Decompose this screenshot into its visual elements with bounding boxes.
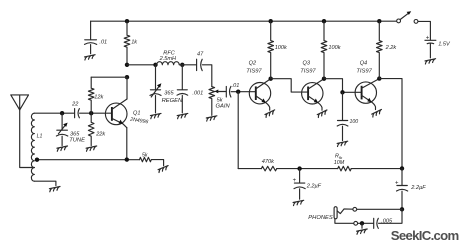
svg-text:.01: .01	[232, 83, 240, 89]
svg-text:470k: 470k	[262, 159, 275, 165]
capacitor 365 REGEN	[150, 86, 161, 113]
wire sleeve to cap	[358, 222, 374, 224]
resistor 12k	[88, 77, 94, 113]
svg-text:REGEN: REGEN	[162, 98, 183, 104]
resistor 2.2k	[376, 21, 382, 78]
transistor Q2 TIS97	[249, 83, 270, 104]
terminal open circle tip	[353, 207, 357, 211]
wire coil bottom to ground	[34, 181, 56, 185]
capacitor .001	[177, 90, 188, 113]
wire Q4 output	[379, 79, 402, 169]
svg-text:47: 47	[197, 51, 204, 57]
resistor 5k emitter	[140, 157, 164, 165]
svg-text:2.5mH: 2.5mH	[159, 56, 177, 62]
capacitor 365 REGEN lead	[155, 65, 157, 90]
capacitor C .01 top-left	[85, 40, 97, 54]
wire RFC line	[127, 64, 157, 66]
wire to Q2 base	[231, 91, 256, 93]
wire 47 cap to gain pot	[202, 65, 211, 87]
capacitor C .01 top-left lead	[90, 21, 92, 39]
svg-text:.01: .01	[99, 39, 107, 45]
wire antenna down lead	[20, 110, 35, 168]
svg-text:Rfb: Rfb	[335, 154, 343, 160]
ground below 5k	[158, 166, 169, 173]
node rail at 1k	[125, 19, 129, 23]
svg-text:Q2: Q2	[249, 60, 257, 66]
wire RFB to output node	[351, 168, 402, 170]
transistor Q1 2N4996	[105, 103, 127, 125]
wire 22 cap to Q1 base	[80, 112, 112, 114]
node Q2 collector	[269, 77, 273, 81]
resistor R 1k	[124, 21, 130, 65]
svg-text:GAIN: GAIN	[216, 103, 231, 109]
node .001 tap	[180, 63, 184, 67]
svg-text:+: +	[293, 178, 297, 184]
svg-text:5k: 5k	[142, 152, 148, 158]
wire jack sleeve line	[335, 219, 354, 224]
ground below TUNE	[57, 146, 68, 151]
svg-text:1.5V: 1.5V	[438, 41, 451, 47]
svg-text:Q4: Q4	[360, 60, 367, 66]
svg-text:+: +	[395, 180, 399, 186]
capacitor 47	[197, 59, 203, 70]
node sleeve ground	[360, 221, 364, 225]
svg-text:2.2µF: 2.2µF	[410, 185, 426, 191]
capacitor 100 base bypass	[337, 92, 348, 140]
wire Q1 collector vertical	[126, 77, 128, 99]
wire feedback vertical	[237, 92, 239, 169]
svg-text:TUNE: TUNE	[69, 137, 85, 143]
svg-text:PHONES: PHONES	[308, 215, 333, 221]
svg-text:Q3: Q3	[303, 60, 311, 66]
jack switch lever	[337, 209, 353, 214]
ground coil bottom	[49, 187, 60, 192]
wire top supply rail	[91, 20, 397, 22]
capacitor .005	[374, 218, 379, 228]
capacitor 2.2uF second	[397, 168, 408, 209]
resistor 100k second	[321, 21, 327, 78]
resistor 100k first	[268, 21, 274, 78]
node RFC line left	[125, 63, 129, 67]
node rail 100k2	[322, 19, 326, 23]
transistor Q4 TIS97	[355, 82, 376, 103]
phone jack body	[334, 207, 337, 219]
potentiometer 5k GAIN	[209, 87, 215, 116]
wire Q3 to Q4	[324, 79, 361, 93]
capacitor 2.2uF first	[294, 169, 305, 200]
svg-text:2.2µF: 2.2µF	[306, 184, 322, 190]
resistor RFB 10M	[338, 166, 351, 171]
svg-text:TIS97: TIS97	[356, 68, 372, 74]
wire .005 to output	[379, 209, 403, 223]
svg-text:100: 100	[350, 119, 359, 125]
ground Q3 emitter	[317, 110, 329, 118]
pot wiper arrow	[214, 90, 218, 94]
wire to RFB	[277, 168, 338, 170]
ground below 22k	[86, 146, 97, 151]
svg-text:.001: .001	[192, 91, 203, 97]
node 12k/22k junction	[89, 111, 93, 115]
ground Q4 emitter	[371, 109, 383, 117]
wire coil tap to emitter resistor	[37, 159, 140, 161]
node 2.2uF junction	[297, 166, 301, 170]
node output junction	[400, 166, 404, 170]
resistor 22k	[88, 113, 94, 145]
svg-text:Q1: Q1	[133, 110, 140, 116]
ground Q2 emitter	[264, 110, 276, 118]
svg-text:TIS97: TIS97	[300, 68, 316, 74]
capacitor .001 lead	[181, 65, 183, 90]
svg-text:10M: 10M	[334, 160, 345, 166]
wire switch to battery corner	[418, 21, 431, 40]
ground below 2.2uF first	[293, 200, 304, 205]
capacitor .01 gain coupling	[226, 86, 231, 97]
svg-text:12k: 12k	[94, 94, 104, 100]
ground below pot	[206, 116, 217, 121]
ground below 100	[337, 141, 348, 146]
antenna	[11, 95, 29, 110]
capacitor 365 TUNE lead	[61, 113, 63, 130]
node emitter junction	[125, 157, 129, 161]
inductor RFC 2.5mH	[157, 62, 180, 65]
ground below .01	[85, 55, 96, 60]
ground battery	[425, 59, 436, 64]
terminal open circle sleeve	[354, 221, 358, 225]
node coil tap	[35, 158, 39, 162]
node Q4 base	[340, 90, 344, 94]
capacitor 365 TUNE	[56, 125, 67, 146]
svg-text:TIS97: TIS97	[246, 68, 262, 74]
node phones top	[400, 207, 404, 211]
switch S1	[397, 19, 401, 23]
node REGEN tap	[153, 63, 157, 67]
node rail 2.2k	[377, 19, 381, 23]
wire jack tip line	[357, 208, 402, 210]
capacitor 22	[75, 109, 80, 118]
wire 12k top	[91, 76, 127, 78]
ground phones	[361, 223, 363, 228]
svg-text:2.2k: 2.2k	[385, 45, 398, 51]
node Q4 collector	[377, 76, 381, 80]
wire tuned circuit top	[34, 112, 73, 114]
wire Q1 emitter vertical	[126, 128, 128, 160]
node rail 100k1	[269, 19, 273, 23]
svg-text:SeekIC.com: SeekIC.com	[391, 228, 459, 243]
node tune tap	[60, 111, 64, 115]
ground below REGEN	[150, 113, 161, 118]
svg-text:+: +	[426, 36, 430, 42]
wire feedback bottom line	[238, 168, 261, 170]
svg-text:365: 365	[164, 91, 174, 97]
wire Q2 to Q3	[271, 79, 308, 92]
ground below .001	[177, 113, 188, 118]
transistor Q3 TIS97	[302, 83, 323, 104]
node 12k top line	[125, 75, 129, 79]
svg-text:100k: 100k	[275, 45, 288, 51]
svg-text:22k: 22k	[95, 132, 106, 138]
svg-text:100k: 100k	[328, 45, 341, 51]
wire to 47 cap	[179, 64, 196, 66]
svg-text:22: 22	[71, 102, 79, 108]
node Q2 base feedback tap	[236, 90, 240, 94]
node Q3 collector	[322, 77, 326, 81]
resistor 470k	[261, 166, 276, 171]
inductor L1	[31, 113, 34, 181]
svg-text:L1: L1	[37, 133, 43, 139]
battery 1.5V	[425, 40, 436, 58]
